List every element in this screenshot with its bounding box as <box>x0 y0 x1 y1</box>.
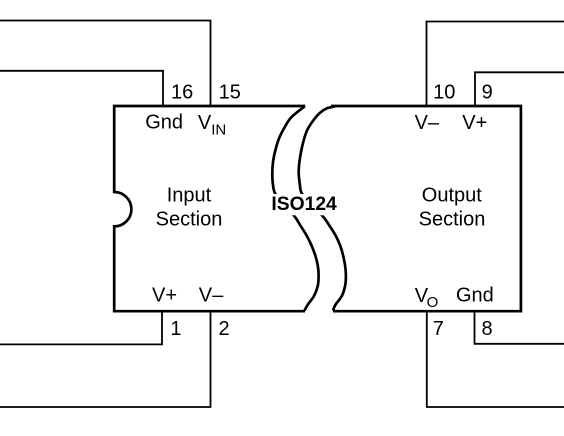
svg-text:V+: V+ <box>462 112 487 134</box>
svg-text:IN: IN <box>211 121 226 138</box>
svg-text:8: 8 <box>482 318 493 340</box>
svg-text:Section: Section <box>419 209 486 231</box>
IC body output section outline (right half of ISO124 package) <box>331 106 521 311</box>
svg-text:Gnd: Gnd <box>145 112 183 134</box>
wire pin 9 net (top-right inner) <box>475 72 564 106</box>
wire pin 1 net (bottom-left upper) <box>0 311 162 344</box>
svg-text:15: 15 <box>219 81 241 103</box>
svg-text:V–: V– <box>415 112 440 134</box>
svg-text:O: O <box>427 294 439 311</box>
svg-text:Gnd: Gnd <box>456 285 494 307</box>
wire pin 7 net (bottom-right lower) <box>427 311 564 407</box>
isolation break S-curve (input side) <box>272 106 318 310</box>
isolation break S-curve (output side) <box>299 106 346 311</box>
svg-text:1: 1 <box>170 318 181 340</box>
label ISO124 (device name, on white patch over isolation break) <box>268 194 340 215</box>
wire pin 10 net (top-right outer) <box>427 22 564 107</box>
svg-text:V–: V– <box>199 285 224 307</box>
svg-text:Output: Output <box>422 185 482 207</box>
wire pin 16 net (top-left inner) <box>0 71 163 106</box>
svg-text:16: 16 <box>171 81 193 103</box>
wire pin 2 net (bottom-left lower) <box>0 311 211 407</box>
svg-text:Section: Section <box>156 209 223 231</box>
svg-text:Input: Input <box>167 185 212 207</box>
wire pin 8 net (bottom-right upper) <box>475 311 564 344</box>
svg-text:7: 7 <box>433 318 444 340</box>
svg-text:2: 2 <box>219 318 230 340</box>
IC body input section outline (left half of ISO124 package) <box>114 106 305 311</box>
wire pin 15 net (top-left outer) <box>0 21 211 107</box>
svg-text:V+: V+ <box>152 285 177 307</box>
svg-text:9: 9 <box>482 81 493 103</box>
svg-text:10: 10 <box>433 81 455 103</box>
svg-text:V: V <box>198 112 212 134</box>
svg-text:ISO124: ISO124 <box>271 194 337 215</box>
